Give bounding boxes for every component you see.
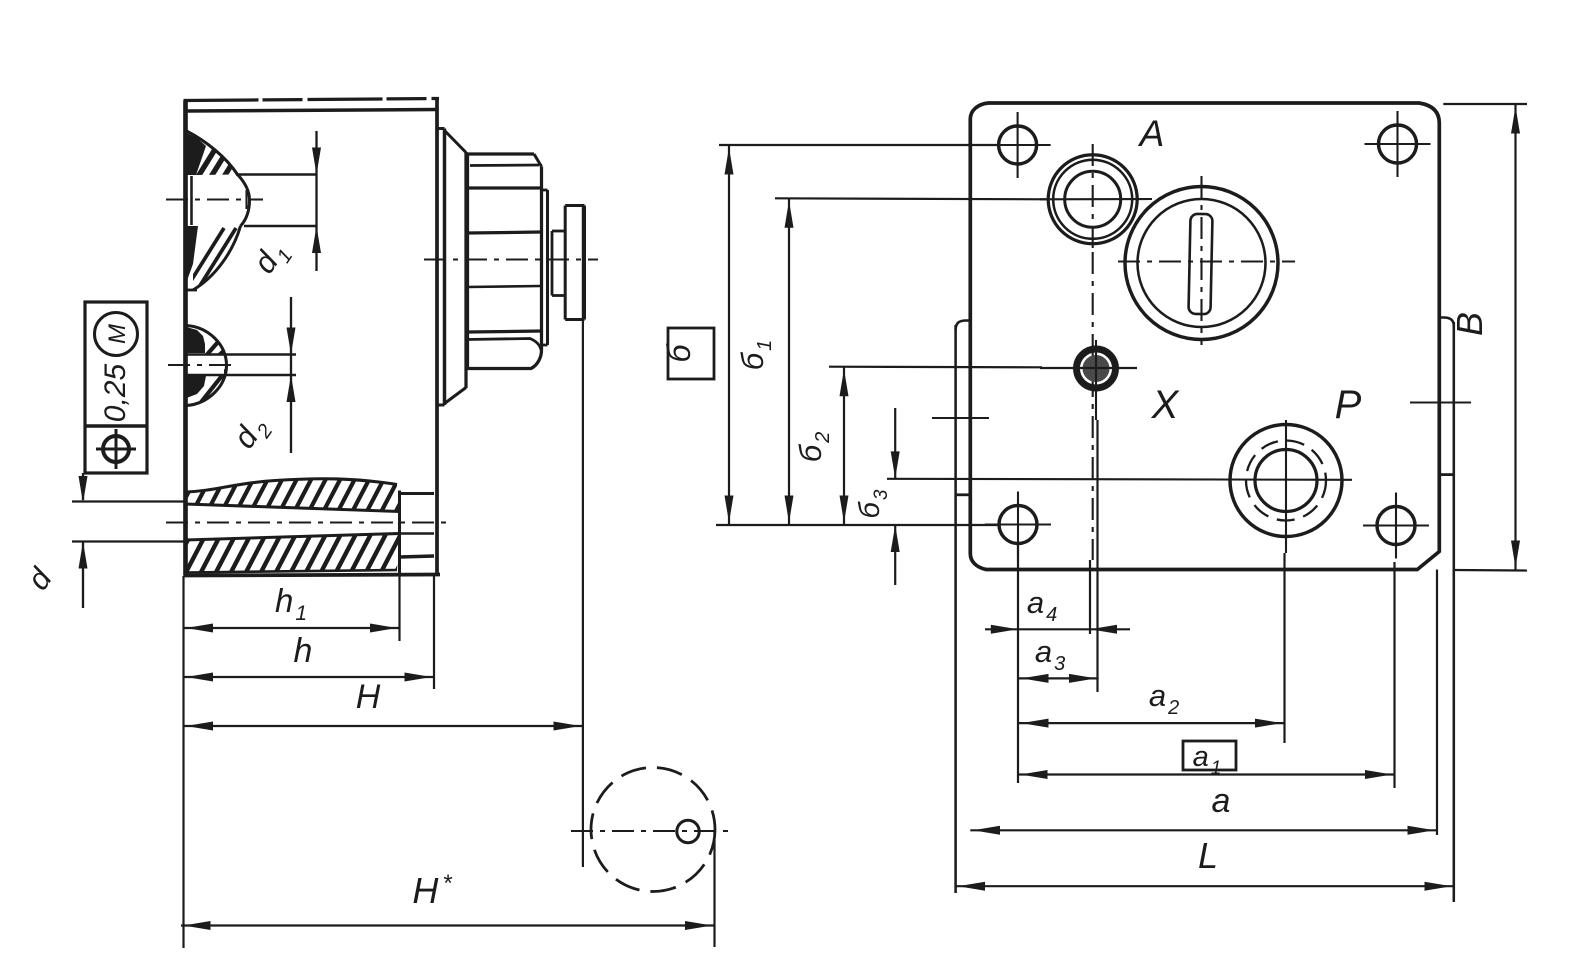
svg-text:L: L	[1198, 835, 1218, 876]
svg-text:P: P	[1335, 383, 1362, 427]
svg-text:B: B	[1449, 312, 1490, 336]
svg-text:M: M	[104, 324, 131, 344]
svg-text:h: h	[294, 632, 313, 670]
svg-text:б: б	[661, 344, 697, 363]
svg-text:a: a	[1212, 782, 1231, 820]
svg-text:H: H	[356, 678, 381, 716]
svg-text:A: A	[1138, 113, 1165, 154]
svg-text:0,25: 0,25	[99, 363, 132, 422]
svg-text:X: X	[1151, 383, 1180, 427]
